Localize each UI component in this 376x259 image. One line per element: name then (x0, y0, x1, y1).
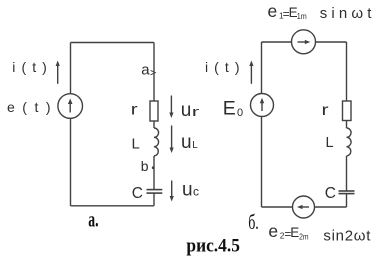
circuit a: left wire lower segment (70, 119, 72, 206)
circuit a: top wire (71, 42, 155, 44)
svg-text:c: c (193, 185, 199, 199)
svg-text:L: L (326, 135, 334, 151)
inductor L (circuit b) (347, 128, 352, 156)
current arrow i(t) (circuit a) (56, 61, 60, 84)
svg-text:б.: б. (248, 210, 259, 234)
circuit a: left wire upper segment (70, 43, 72, 94)
svg-text:r: r (131, 101, 139, 118)
svg-text:u: u (181, 100, 192, 121)
svg-text:C: C (325, 185, 336, 202)
label E0 (223, 98, 243, 120)
label uc (182, 180, 199, 201)
source e2 circle (bottom) (293, 196, 315, 218)
current arrow i(t) (circuit b) (249, 61, 253, 84)
capacitor C (circuit b) (339, 191, 355, 194)
circuit a: bottom wire (71, 205, 155, 207)
svg-text:L: L (132, 136, 140, 153)
svg-text:i(t): i(t) (12, 59, 47, 75)
resistor r (circuit a) (150, 101, 158, 121)
wire resistor to inductor (circuit b) (346, 121, 348, 129)
voltage source e(t) circle (58, 94, 83, 119)
svg-text:e: e (268, 221, 278, 241)
wire capacitor to bottom (circuit b) (346, 194, 348, 207)
node b dot (152, 166, 155, 169)
label e2=E2m sin2wt (268, 221, 371, 245)
circuit b: bottom wire left segment (262, 206, 293, 208)
label ur (181, 100, 201, 121)
wire inductor to capacitor (circuit b) (346, 156, 348, 191)
svg-text:a: a (141, 62, 150, 79)
svg-text:i(t): i(t) (205, 59, 240, 75)
circuit b: bottom wire right segment (314, 206, 346, 208)
source e1 circle (top) (292, 30, 316, 54)
node a tick (151, 70, 156, 74)
svg-text:u: u (182, 180, 193, 201)
svg-text:b: b (141, 158, 149, 174)
svg-text:sin2ωt: sin2ωt (323, 228, 371, 245)
svg-text:u: u (181, 132, 192, 153)
circuit a: right wire top segment (153, 43, 155, 102)
circuit b: top wire right segment (315, 41, 346, 43)
source E0 circle (251, 94, 274, 117)
svg-text:2m: 2m (299, 232, 309, 242)
label e1=E1m sinwt (268, 1, 373, 22)
svg-text:рис.4.5: рис.4.5 (186, 236, 240, 257)
svg-text:E: E (223, 98, 236, 120)
circuit b: top wire left segment (262, 41, 292, 43)
svg-text:E: E (290, 225, 299, 240)
capacitor C (circuit a) (147, 190, 163, 194)
voltage arrow uL (170, 126, 174, 154)
svg-text:r: r (322, 102, 330, 119)
label uL (181, 132, 198, 153)
svg-text:а.: а. (88, 207, 98, 232)
wire resistor to inductor (circuit a) (153, 121, 155, 128)
voltage arrow ur (169, 96, 173, 119)
svg-text:sinωt: sinωt (320, 5, 373, 22)
circuit b: left wire lower segment (261, 117, 263, 208)
inductor L (circuit a) (154, 128, 159, 156)
svg-text:r: r (192, 104, 201, 119)
svg-text:e: e (268, 1, 278, 21)
svg-text:e(t): e(t) (7, 99, 51, 115)
circuit b: right wire top segment (346, 42, 348, 101)
svg-text:C: C (132, 185, 143, 202)
wire inductor to capacitor (circuit a) (153, 156, 155, 189)
circuit b: left wire upper segment (261, 42, 263, 94)
resistor r (circuit b) (343, 101, 352, 121)
svg-text:1m: 1m (297, 11, 307, 21)
svg-text:L: L (192, 140, 198, 151)
svg-text:0: 0 (237, 107, 243, 119)
voltage arrow uc (170, 181, 174, 202)
wire capacitor to bottom (circuit a) (153, 193, 155, 206)
